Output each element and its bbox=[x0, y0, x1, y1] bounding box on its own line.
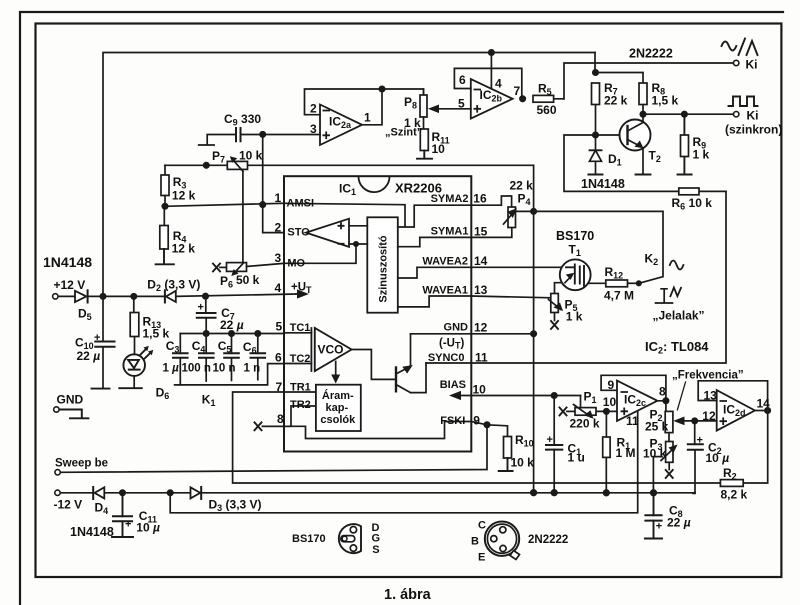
icon sine slash triangle top right bbox=[722, 42, 737, 51]
potentiometer P7 bbox=[227, 161, 247, 169]
node C9 output bbox=[260, 132, 265, 137]
wire IC1 internal pin1 to sine block bbox=[284, 203, 471, 227]
X mark P3 bottom bbox=[666, 470, 673, 478]
resistor R10 bbox=[504, 437, 512, 459]
svg-text:+: + bbox=[198, 302, 204, 314]
wire C6 stems bbox=[257, 334, 259, 380]
wire C9 node down to STO pin2 bbox=[263, 134, 284, 232]
potentiometer P6 bbox=[220, 266, 227, 268]
node IC2c output bbox=[663, 398, 668, 403]
ground LED bbox=[119, 387, 142, 389]
wire V- line to IC2c pin11 bbox=[170, 411, 638, 513]
wire P3 bottom to X bbox=[668, 462, 670, 469]
wire IC2d feedback bbox=[698, 381, 767, 411]
wire IC2a feedback loop bbox=[305, 89, 383, 125]
svg-text:SYMA1: SYMA1 bbox=[431, 226, 469, 238]
node C11 tap bbox=[120, 490, 125, 495]
node C6 top bbox=[255, 331, 260, 336]
capacitor C11 bbox=[113, 516, 132, 521]
svg-text:10 k: 10 k bbox=[643, 447, 667, 461]
potentiometer P2 bbox=[665, 411, 673, 432]
opamp signs STO bbox=[338, 222, 345, 244]
node R1 bottom bbox=[604, 490, 610, 496]
svg-text:AMSI: AMSI bbox=[287, 198, 315, 210]
svg-text:+: + bbox=[125, 519, 131, 531]
X mark P1 left bbox=[560, 408, 567, 416]
op-amp IC2a bbox=[320, 105, 362, 146]
svg-text:16: 16 bbox=[473, 192, 487, 206]
wire X to P1 left bbox=[567, 410, 575, 412]
icon sine at K2 bbox=[670, 261, 684, 270]
wire K1 bus / TC2 jog bbox=[175, 364, 312, 385]
wire R7/R8 supply drop bbox=[595, 53, 643, 84]
svg-text:TR2: TR2 bbox=[290, 399, 311, 411]
svg-text:C9 330: C9 330 bbox=[224, 112, 261, 128]
svg-text:10 µ: 10 µ bbox=[706, 451, 730, 465]
svg-text:+: + bbox=[697, 435, 703, 447]
block Szinuszosito bbox=[367, 217, 398, 312]
svg-text:+: + bbox=[547, 434, 553, 446]
wire P4 wiper row to K2 bbox=[534, 211, 663, 276]
wire pin15 SYMA1 to P4 bottom bbox=[471, 228, 512, 238]
svg-text:10 µ: 10 µ bbox=[136, 520, 160, 534]
node C8 / P3 wiper bbox=[651, 490, 657, 496]
svg-text:IC2: TL084: IC2: TL084 bbox=[645, 339, 709, 356]
resistor R7 bbox=[592, 83, 600, 105]
package BS170 TO92 bbox=[339, 524, 361, 553]
wire P1 right to IC2c pin10 bbox=[596, 410, 617, 412]
op-amp STO comparator bbox=[306, 219, 349, 247]
resistor R13 bbox=[130, 313, 139, 337]
op-amp IC2d bbox=[717, 390, 755, 431]
svg-text:TR1: TR1 bbox=[290, 382, 311, 394]
resistor R6 bbox=[679, 188, 699, 195]
opamp signs IC2a bbox=[323, 111, 331, 140]
svg-text:14: 14 bbox=[474, 254, 488, 268]
svg-text:22 µ: 22 µ bbox=[220, 318, 244, 332]
capacitor C1 bbox=[546, 445, 562, 450]
svg-text:-12 V: -12 V bbox=[54, 498, 83, 512]
arrow BIAS into IC1 bbox=[449, 391, 461, 400]
wire C10 branch bbox=[102, 296, 104, 387]
svg-text:6: 6 bbox=[459, 73, 466, 87]
wire IC2b pin5 from P8 wiper bbox=[433, 108, 471, 110]
svg-text:22 k: 22 k bbox=[510, 179, 534, 193]
terminal Ki sine bbox=[734, 60, 739, 65]
resistor R3 bbox=[164, 165, 166, 175]
svg-text:1: 1 bbox=[364, 111, 371, 125]
resistor R8 bbox=[639, 83, 647, 105]
node C2 top bbox=[692, 418, 697, 423]
node pin4 IC2b supply tap bbox=[489, 50, 494, 55]
node C5 top bbox=[229, 331, 234, 336]
arrow P2 wiper bbox=[673, 417, 684, 426]
svg-text:Áram-: Áram- bbox=[322, 389, 354, 402]
svg-text:1N4148: 1N4148 bbox=[581, 177, 625, 191]
capacitor C3 bbox=[173, 353, 188, 358]
node P7 rail tap bbox=[204, 163, 209, 168]
potentiometer P8 bbox=[423, 89, 425, 95]
wire FSKI internal staircase bbox=[263, 422, 472, 439]
wire STO plus input bbox=[349, 225, 367, 227]
svg-text:csolók: csolók bbox=[320, 414, 356, 426]
svg-text:S: S bbox=[372, 544, 379, 556]
svg-text:B: B bbox=[471, 536, 479, 548]
ground T2 bbox=[636, 174, 651, 176]
svg-text:E: E bbox=[478, 552, 485, 564]
svg-text:1 k: 1 k bbox=[693, 148, 710, 162]
terminal -12V bbox=[55, 490, 60, 495]
svg-text:1: 1 bbox=[275, 191, 282, 205]
svg-text:WAVEA2: WAVEA2 bbox=[422, 256, 468, 268]
arrow P8 wiper bbox=[428, 105, 439, 114]
svg-text:11: 11 bbox=[475, 351, 488, 365]
node T2 collector bbox=[640, 112, 645, 117]
svg-text:8,2 k: 8,2 k bbox=[721, 488, 748, 502]
svg-text:5: 5 bbox=[458, 97, 465, 111]
wire IC2b pin4 supply bbox=[490, 53, 492, 89]
wire R8 bottom / collector row to Ki szinkron bbox=[643, 105, 734, 115]
diode D3 bbox=[191, 487, 201, 498]
transistor internal emitter to SYNC0 bbox=[396, 363, 426, 393]
terminal Sweep be bbox=[55, 470, 60, 475]
capacitor C8 bbox=[645, 515, 661, 520]
wire R9 stems and ground bbox=[678, 114, 692, 174]
wire C3 stems bbox=[179, 334, 181, 385]
svg-text:BS170: BS170 bbox=[292, 533, 326, 545]
svg-text:MO: MO bbox=[287, 257, 305, 269]
node R1 top bbox=[604, 409, 609, 414]
svg-text:10 n: 10 n bbox=[213, 362, 236, 374]
resistor R4 bbox=[163, 206, 165, 225]
transistor internal Q base bar bbox=[395, 368, 397, 392]
wire C9 left with stub bbox=[199, 135, 236, 146]
potentiometer P4 bbox=[508, 207, 516, 228]
svg-text:G: G bbox=[372, 533, 381, 545]
ground R10 bbox=[499, 458, 513, 471]
svg-text:+12 V: +12 V bbox=[54, 278, 86, 292]
wire pin16 SYMA2 to P4 top bbox=[471, 196, 511, 207]
svg-text:(szinkron): (szinkron) bbox=[725, 123, 782, 137]
svg-text:25 k: 25 k bbox=[645, 420, 669, 434]
svg-text:4: 4 bbox=[275, 281, 282, 295]
svg-text:10: 10 bbox=[432, 142, 446, 156]
IC1 body XR2206 bbox=[284, 176, 471, 451]
node C1 bottom bbox=[551, 490, 557, 496]
svg-text:WAVEA1: WAVEA1 bbox=[422, 285, 468, 297]
svg-text:GND: GND bbox=[444, 322, 469, 334]
svg-text:1. ábra: 1. ábra bbox=[384, 587, 432, 603]
ground D1 bbox=[588, 174, 602, 176]
diode D5 bbox=[75, 291, 86, 302]
ground R11 bbox=[417, 151, 432, 159]
ground R4 bbox=[156, 249, 174, 264]
wire TR2 jog to X bbox=[263, 406, 316, 426]
svg-text:12: 12 bbox=[702, 409, 716, 423]
wire -12V row bbox=[60, 492, 191, 494]
wire P3 wiper to -UT rail bbox=[653, 457, 662, 493]
node FSKI sweep tap bbox=[484, 422, 489, 427]
svg-text:1N4148: 1N4148 bbox=[43, 254, 92, 270]
svg-text:12 k: 12 k bbox=[172, 189, 196, 203]
wire C2 stems bbox=[693, 421, 695, 494]
wire R1 stems bbox=[605, 411, 607, 492]
svg-text:9: 9 bbox=[608, 378, 615, 392]
potentiometer P3 bbox=[666, 442, 673, 463]
node P4 wiper junction bbox=[531, 209, 536, 214]
wire VCO out to internal transistor base bbox=[352, 350, 396, 380]
transistor internal collector to GND pin bbox=[396, 334, 411, 374]
svg-text:8: 8 bbox=[277, 412, 284, 426]
wire pin12 GND row bbox=[411, 333, 534, 335]
node V- branch tap bbox=[168, 490, 173, 495]
wire P7 wiper to P6 wiper bbox=[242, 171, 244, 263]
transistor T1 BS170 bbox=[560, 259, 591, 290]
node AMSI C9 junction bbox=[260, 202, 265, 207]
svg-text:SYNC0: SYNC0 bbox=[428, 352, 465, 364]
svg-text:10 k: 10 k bbox=[239, 149, 263, 163]
resistor R2 bbox=[720, 480, 743, 487]
svg-text:+: + bbox=[94, 332, 100, 344]
wire TR1 left and rail1 drop bbox=[233, 392, 768, 483]
capacitor C5 bbox=[224, 353, 239, 358]
X mark P5 bottom bbox=[551, 321, 558, 329]
svg-text:14: 14 bbox=[757, 396, 771, 410]
icon square wave bbox=[729, 97, 758, 107]
wire C8 stems and ground bbox=[645, 493, 662, 539]
wire C7 branch bbox=[205, 296, 207, 333]
svg-text:4,7 M: 4,7 M bbox=[604, 289, 634, 303]
wire pin1 AMSI lead bbox=[165, 203, 284, 206]
node K2 pivot bbox=[637, 281, 641, 285]
wire +12V top rail bbox=[103, 53, 595, 297]
svg-text:50 k: 50 k bbox=[236, 273, 260, 287]
potentiometer P5 bbox=[551, 294, 559, 313]
wire SYMA1 block jog bbox=[398, 237, 472, 246]
wire C5 stems bbox=[231, 334, 233, 381]
node IC2d output bbox=[765, 408, 770, 413]
wire IC2a output to P8 top bbox=[382, 89, 424, 95]
resistor R1 bbox=[603, 437, 610, 457]
wire STO minus input with MO riser bbox=[284, 244, 367, 263]
svg-text:22 µ: 22 µ bbox=[77, 349, 101, 363]
node T1 source bbox=[562, 280, 567, 285]
svg-text:2N2222: 2N2222 bbox=[629, 47, 673, 61]
ground C10 bbox=[92, 388, 110, 390]
wire P5 bottom to X bbox=[554, 313, 556, 321]
svg-text:7: 7 bbox=[276, 380, 283, 394]
svg-text:22 µ: 22 µ bbox=[667, 516, 691, 530]
svg-text:220 k: 220 k bbox=[570, 417, 600, 431]
wire IC2d output tip bbox=[755, 410, 768, 412]
wire GND terminal lead bbox=[59, 410, 88, 419]
svg-text:1 µ: 1 µ bbox=[163, 362, 180, 374]
wire R12 to K2 lever bbox=[628, 282, 639, 284]
wire SYNC0 row to K2 box bbox=[426, 191, 726, 363]
wire pin13 WAVEA1 to P5 bbox=[471, 296, 551, 298]
capacitor C6 bbox=[251, 353, 266, 358]
terminal Ki szinkron bbox=[734, 112, 739, 117]
svg-text:12: 12 bbox=[474, 321, 488, 335]
svg-text:10: 10 bbox=[603, 395, 617, 409]
svg-text:Ki: Ki bbox=[746, 58, 758, 72]
svg-text:D2 (3,3 V): D2 (3,3 V) bbox=[147, 278, 200, 294]
IC1 notch bbox=[359, 177, 390, 192]
svg-text:1N4148: 1N4148 bbox=[70, 525, 114, 539]
opamp signs IC2d bbox=[720, 401, 728, 425]
wire pin14 WAVEA2 to T1 gate bbox=[471, 266, 566, 268]
icon triangle at K2 bbox=[670, 288, 681, 297]
node R9 tap bbox=[682, 112, 687, 117]
capacitor C9 bbox=[236, 128, 241, 141]
svg-text:11: 11 bbox=[626, 414, 639, 428]
svg-text:+: + bbox=[656, 521, 662, 533]
wire C9 right to IC2a plus input bbox=[241, 134, 321, 136]
capacitor C2 bbox=[688, 444, 703, 450]
svg-text:BIAS: BIAS bbox=[440, 379, 466, 391]
node C7 bottom / C4 top bbox=[204, 331, 209, 336]
diode D4 bbox=[95, 487, 105, 498]
resistor R12 bbox=[606, 280, 628, 287]
package 2N2222 TO18 bbox=[485, 522, 519, 556]
wire P7 rail bbox=[165, 164, 534, 166]
svg-text:3: 3 bbox=[310, 122, 317, 136]
wire C1 stems bbox=[553, 396, 555, 493]
svg-text:100 n: 100 n bbox=[182, 362, 211, 374]
svg-text:22 k: 22 k bbox=[604, 94, 628, 108]
terminal GND bbox=[54, 407, 59, 412]
node R3 R4 junction bbox=[162, 204, 167, 209]
svg-text:13: 13 bbox=[704, 388, 718, 402]
opamp signs IC2c bbox=[621, 392, 629, 415]
wire C4 stems bbox=[205, 334, 207, 382]
svg-text:„Frekvencia”: „Frekvencia” bbox=[672, 370, 744, 382]
wire R13/LED branch bbox=[133, 296, 136, 387]
node IC2a feedback bbox=[379, 86, 384, 91]
block VCO bbox=[311, 328, 314, 371]
wire T1 drain to R12 bbox=[584, 282, 606, 284]
arrow VCO to Aram block bbox=[335, 362, 337, 376]
node C7 tap bbox=[203, 294, 208, 299]
svg-text:8: 8 bbox=[659, 384, 666, 398]
svg-text:R6 10 k: R6 10 k bbox=[672, 196, 713, 212]
resistor R5 bbox=[533, 95, 554, 102]
node R7 top bbox=[593, 70, 598, 75]
LED D6 bbox=[123, 354, 145, 376]
node GND pin12 junction bbox=[531, 331, 536, 336]
svg-text:4: 4 bbox=[495, 77, 502, 91]
wire TC1 row bbox=[180, 332, 311, 335]
pin 4 arrow into IC1 bbox=[296, 293, 305, 295]
svg-text:3: 3 bbox=[275, 251, 282, 265]
X mark pin8 unconnected bbox=[255, 422, 262, 430]
svg-text:kap-: kap- bbox=[325, 402, 348, 414]
resistor R11 bbox=[423, 117, 425, 129]
node +12V left vertical bbox=[100, 294, 105, 299]
wire P2 wiper row to IC2d pin12 bbox=[679, 420, 717, 422]
potentiometer P1 bbox=[575, 408, 596, 416]
svg-text:VCO: VCO bbox=[318, 343, 344, 357]
svg-text:6: 6 bbox=[275, 351, 282, 365]
wire IC2b feedback bbox=[454, 68, 521, 98]
node -UT rail junction bbox=[531, 490, 537, 496]
svg-text:10: 10 bbox=[473, 383, 487, 397]
svg-text:560: 560 bbox=[537, 103, 557, 117]
svg-text:TC1: TC1 bbox=[290, 322, 311, 334]
svg-text:1,5 k: 1,5 k bbox=[652, 94, 679, 108]
wire P1 wiper drop bbox=[580, 396, 582, 408]
resistor R9 bbox=[681, 135, 689, 157]
transistor T2 2N2222 bbox=[620, 120, 651, 151]
capacitor C4 bbox=[199, 353, 214, 358]
wire WAVEA1 block jog bbox=[398, 296, 472, 307]
svg-text:10 k: 10 k bbox=[511, 456, 535, 470]
svg-text:FSKI: FSKI bbox=[440, 415, 465, 427]
wire FSKI row to R10 bbox=[471, 422, 507, 437]
svg-text:TC2: TC2 bbox=[290, 353, 311, 365]
wire P2 P3 link bbox=[668, 433, 670, 442]
svg-text:12 k: 12 k bbox=[172, 242, 196, 256]
node BIAS / C1 / P1 bbox=[552, 393, 557, 398]
svg-text:2: 2 bbox=[275, 221, 282, 235]
svg-text:5: 5 bbox=[276, 320, 283, 334]
svg-text:15: 15 bbox=[474, 225, 488, 239]
svg-text:D3 (3,3 V): D3 (3,3 V) bbox=[209, 498, 262, 513]
op-amp IC2b bbox=[471, 79, 513, 119]
wire IC2c output to P2 bbox=[657, 401, 666, 412]
block Aram-kapcsolok bbox=[316, 385, 361, 431]
svg-text:BS170: BS170 bbox=[556, 229, 594, 243]
svg-text:C: C bbox=[478, 520, 486, 532]
svg-text:SYMA2: SYMA2 bbox=[431, 193, 469, 205]
svg-text:„Szint”: „Szint” bbox=[385, 127, 422, 139]
wire Sweep be line bbox=[60, 425, 487, 473]
wire +12V row bbox=[58, 294, 296, 296]
svg-text:(-UT): (-UT) bbox=[439, 338, 464, 351]
svg-text:9: 9 bbox=[473, 413, 480, 427]
capacitor C10 bbox=[95, 342, 114, 347]
node IC2b output bbox=[520, 96, 525, 101]
diode D2 bbox=[166, 291, 176, 302]
wire R6 left lead bbox=[564, 135, 726, 191]
wire K2 lever bbox=[639, 277, 663, 284]
op-amp IC2c bbox=[617, 381, 657, 421]
svg-text:2: 2 bbox=[310, 102, 317, 116]
wire C11 stems bbox=[112, 493, 133, 537]
wire -UT vertical x533 bbox=[533, 165, 535, 492]
node R13 tap bbox=[131, 294, 136, 299]
wire P4 wiper to -UT vertical bbox=[516, 210, 534, 212]
svg-text:13: 13 bbox=[474, 283, 488, 297]
svg-text:1 u: 1 u bbox=[568, 451, 585, 465]
wire WAVEA2 block jog bbox=[398, 267, 472, 278]
svg-text:„Jelalak”: „Jelalak” bbox=[653, 309, 705, 323]
node STO minus bbox=[354, 242, 358, 246]
svg-text:GND: GND bbox=[57, 393, 84, 407]
wire R7 bottom to D1 bbox=[595, 105, 597, 151]
wire IC2c feedback bbox=[601, 375, 666, 401]
wire sine output to Ki bbox=[554, 63, 734, 99]
wire -UT rail after D3 bbox=[200, 492, 695, 494]
wire K2 lower contact T bbox=[656, 289, 673, 303]
diode D1 bbox=[590, 149, 602, 151]
svg-text:2N2222: 2N2222 bbox=[528, 534, 568, 546]
svg-text:7: 7 bbox=[514, 84, 521, 98]
capacitor C7 bbox=[197, 313, 216, 318]
svg-text:STO: STO bbox=[287, 227, 310, 239]
svg-text:Szinuszosító: Szinuszosító bbox=[378, 235, 390, 303]
node T2 base / D1 bbox=[593, 132, 598, 137]
